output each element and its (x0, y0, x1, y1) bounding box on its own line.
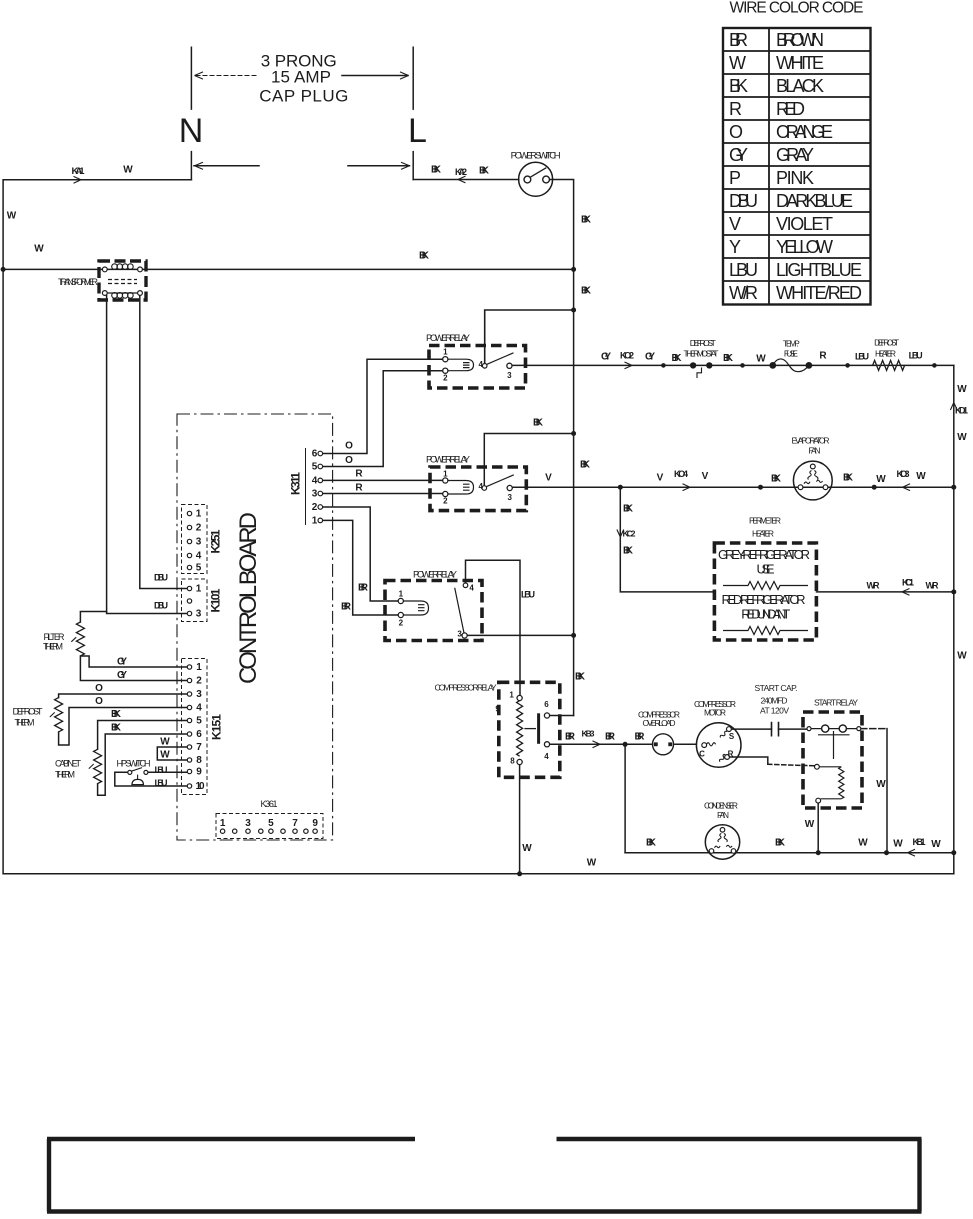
svg-text:3: 3 (507, 371, 512, 380)
svg-text:O: O (95, 683, 103, 694)
svg-text:DEFROST: DEFROST (874, 337, 899, 347)
svg-text:C: C (699, 750, 705, 759)
svg-text:WHITE/RED: WHITE/RED (776, 283, 862, 303)
svg-text:FUSE: FUSE (784, 349, 798, 359)
svg-text:KC1: KC1 (902, 577, 914, 587)
svg-text:BK: BK (575, 671, 586, 682)
svg-text:DEFROST: DEFROST (690, 338, 716, 348)
svg-text:LBU: LBU (155, 778, 168, 788)
svg-text:O: O (345, 441, 353, 452)
svg-text:4: 4 (469, 583, 474, 592)
svg-text:GY: GY (729, 145, 748, 165)
svg-text:KC2: KC2 (623, 528, 636, 538)
svg-text:2: 2 (443, 497, 448, 506)
svg-text:WIRE COLOR CODE: WIRE COLOR CODE (730, 0, 864, 17)
svg-text:4: 4 (478, 482, 483, 491)
svg-text:START RELAY: START RELAY (814, 698, 858, 708)
svg-text:KO4: KO4 (674, 469, 688, 479)
svg-text:BK: BK (533, 417, 544, 428)
svg-text:DBU: DBU (729, 191, 758, 211)
svg-text:W: W (876, 779, 886, 790)
svg-text:ORANGE: ORANGE (776, 122, 833, 142)
svg-text:W: W (893, 838, 903, 849)
svg-text:O: O (729, 122, 743, 142)
svg-text:AT 120V: AT 120V (760, 706, 789, 716)
svg-text:GRAY: GRAY (776, 145, 814, 165)
svg-text:BK: BK (843, 472, 854, 483)
svg-text:BK: BK (623, 545, 634, 556)
svg-text:VIOLET: VIOLET (776, 214, 833, 234)
svg-text:R: R (819, 351, 827, 362)
svg-text:1: 1 (443, 470, 448, 479)
svg-text:USE: USE (757, 562, 775, 577)
svg-text:K361: K361 (261, 799, 278, 809)
svg-text:LBU: LBU (521, 589, 535, 599)
svg-text:V: V (545, 472, 552, 483)
svg-text:W: W (34, 244, 44, 255)
svg-text:240MFD: 240MFD (761, 696, 788, 706)
svg-text:LIGHTBLUE: LIGHTBLUE (776, 260, 862, 280)
svg-text:7: 7 (196, 742, 202, 753)
svg-text:BK: BK (581, 286, 592, 297)
svg-text:4: 4 (312, 475, 318, 486)
svg-text:2: 2 (443, 373, 448, 382)
svg-text:6: 6 (196, 729, 202, 740)
svg-text:POWER SWITCH: POWER SWITCH (511, 150, 561, 161)
svg-text:HEATER: HEATER (752, 528, 774, 538)
svg-text:EVAPORATOR: EVAPORATOR (792, 435, 830, 445)
svg-text:V: V (702, 471, 709, 482)
svg-text:K311: K311 (289, 472, 303, 495)
svg-text:2: 2 (399, 619, 404, 628)
svg-text:K101: K101 (209, 588, 223, 612)
svg-text:BK: BK (431, 165, 442, 176)
svg-text:GY: GY (117, 656, 127, 667)
svg-text:BK: BK (646, 837, 657, 848)
svg-text:K251: K251 (209, 529, 223, 553)
svg-text:W: W (160, 736, 170, 747)
svg-text:3: 3 (196, 537, 202, 548)
svg-text:4: 4 (196, 703, 202, 714)
svg-text:BK: BK (672, 353, 683, 364)
svg-text:LBU: LBU (855, 351, 869, 361)
svg-text:1: 1 (509, 691, 514, 700)
svg-text:TEMP.: TEMP. (783, 339, 800, 349)
svg-text:W/R: W/R (867, 580, 881, 590)
svg-text:BLACK: BLACK (776, 76, 824, 96)
svg-text:2: 2 (196, 523, 202, 534)
svg-text:1: 1 (312, 515, 318, 526)
svg-text:W: W (756, 353, 766, 364)
svg-text:DBU: DBU (154, 572, 168, 582)
svg-text:V: V (657, 472, 664, 483)
svg-text:W: W (123, 165, 133, 176)
svg-text:5: 5 (196, 716, 202, 727)
svg-text:KO2: KO2 (620, 350, 634, 360)
svg-text:1: 1 (443, 348, 448, 357)
svg-text:GY: GY (117, 670, 127, 681)
svg-text:BK: BK (111, 722, 122, 733)
svg-text:FAN: FAN (717, 810, 729, 820)
svg-text:CONTROL BOARD: CONTROL BOARD (235, 512, 262, 684)
svg-text:THERM: THERM (55, 769, 75, 779)
svg-text:BK: BK (419, 251, 430, 262)
svg-text:THERM: THERM (15, 717, 35, 727)
svg-text:2: 2 (196, 676, 202, 687)
svg-text:PERIMETER: PERIMETER (749, 516, 781, 526)
svg-text:4: 4 (196, 551, 202, 562)
svg-text:KO3: KO3 (897, 469, 910, 479)
svg-text:THERM: THERM (43, 641, 63, 651)
svg-text:4: 4 (544, 752, 549, 761)
svg-text:O: O (95, 696, 103, 707)
svg-text:5: 5 (196, 563, 202, 574)
svg-text:R: R (355, 468, 363, 479)
svg-text:R: R (355, 482, 363, 493)
svg-text:KD1: KD1 (955, 405, 968, 415)
svg-text:2: 2 (312, 502, 318, 513)
svg-text:3: 3 (507, 493, 512, 502)
svg-text:DEFROST: DEFROST (13, 706, 43, 717)
svg-text:BR: BR (605, 732, 616, 743)
svg-text:BR: BR (341, 601, 352, 612)
svg-text:W: W (916, 471, 926, 482)
svg-text:Y: Y (729, 237, 741, 257)
svg-text:BR: BR (565, 731, 576, 742)
svg-text:8: 8 (196, 755, 202, 766)
svg-text:START CAP.: START CAP. (755, 683, 798, 693)
svg-text:9: 9 (495, 705, 500, 714)
svg-text:8: 8 (510, 757, 515, 766)
svg-text:15 AMP: 15 AMP (271, 68, 331, 87)
svg-text:BK: BK (479, 166, 490, 177)
svg-text:W: W (876, 474, 886, 485)
svg-text:3: 3 (245, 818, 251, 829)
svg-text:HEATER: HEATER (875, 349, 896, 359)
svg-text:W/R: W/R (926, 580, 940, 590)
svg-text:FAN: FAN (809, 445, 821, 455)
svg-text:N: N (179, 112, 204, 150)
svg-text:BR: BR (635, 732, 646, 743)
svg-text:DBU: DBU (154, 601, 168, 611)
svg-text:5: 5 (268, 818, 274, 829)
svg-text:3: 3 (196, 689, 202, 700)
svg-text:BK: BK (581, 215, 592, 226)
svg-text:CONDENSER: CONDENSER (704, 801, 738, 811)
svg-text:W: W (957, 384, 967, 395)
svg-text:BK: BK (723, 353, 734, 364)
svg-text:R: R (728, 750, 734, 759)
svg-text:V: V (729, 214, 741, 234)
svg-text:1: 1 (196, 509, 202, 520)
svg-text:MOTOR: MOTOR (704, 708, 726, 718)
svg-text:BK: BK (775, 837, 786, 848)
svg-text:S: S (729, 732, 735, 741)
svg-text:W: W (957, 650, 967, 661)
svg-text:W: W (957, 432, 967, 443)
svg-text:CABINET: CABINET (55, 758, 82, 768)
svg-text:DARKBLUE: DARKBLUE (776, 191, 853, 211)
svg-text:BROWN: BROWN (776, 30, 824, 50)
svg-text:10: 10 (196, 781, 205, 792)
svg-text:KA1: KA1 (72, 166, 86, 177)
svg-text:P: P (729, 168, 741, 188)
svg-text:GY: GY (645, 351, 655, 362)
svg-text:PINK: PINK (776, 168, 814, 188)
svg-text:W: W (587, 857, 597, 868)
svg-text:CAP PLUG: CAP PLUG (259, 87, 348, 106)
svg-text:1: 1 (196, 662, 202, 673)
svg-text:BK: BK (771, 473, 782, 484)
svg-text:OVERLOAD: OVERLOAD (643, 718, 676, 728)
svg-text:W: W (858, 837, 868, 848)
svg-text:W: W (160, 749, 170, 760)
svg-text:R: R (729, 99, 742, 119)
svg-text:W: W (522, 843, 532, 854)
svg-text:RED-REFRIGERATOR: RED-REFRIGERATOR (722, 592, 806, 607)
svg-text:LBU: LBU (155, 765, 168, 775)
svg-text:W: W (729, 53, 746, 73)
svg-text:L: L (408, 112, 427, 150)
svg-text:HP SWITCH: HP SWITCH (117, 758, 151, 768)
svg-text:POWER RELAY: POWER RELAY (426, 333, 471, 344)
svg-text:COMPRESSOR RELAY: COMPRESSOR RELAY (435, 682, 497, 692)
svg-text:9: 9 (312, 818, 318, 829)
svg-text:WHITE: WHITE (776, 53, 824, 73)
svg-text:KB3: KB3 (582, 729, 595, 739)
svg-text:GREY-REFRIGERATOR: GREY-REFRIGERATOR (718, 547, 810, 562)
svg-text:W: W (805, 819, 815, 830)
svg-text:RED: RED (776, 99, 805, 119)
svg-text:W: W (7, 211, 17, 222)
svg-text:LBU: LBU (909, 350, 923, 360)
svg-text:6: 6 (544, 700, 549, 709)
svg-text:BK: BK (623, 503, 634, 514)
svg-text:1: 1 (399, 590, 404, 599)
svg-text:7: 7 (292, 818, 298, 829)
svg-text:W/R: W/R (729, 283, 758, 303)
svg-text:GY: GY (601, 351, 611, 362)
svg-text:KA2: KA2 (455, 167, 467, 177)
svg-text:THERMOSTAT: THERMOSTAT (684, 349, 719, 359)
svg-text:BK: BK (729, 76, 748, 96)
svg-text:3: 3 (196, 609, 202, 620)
svg-text:BK: BK (111, 709, 122, 720)
svg-text:LBU: LBU (729, 260, 758, 280)
svg-text:POWER RELAY: POWER RELAY (413, 570, 458, 581)
svg-text:O: O (345, 455, 353, 466)
svg-text:K151: K151 (210, 714, 224, 740)
svg-text:9: 9 (196, 767, 202, 778)
svg-text:BR: BR (358, 582, 369, 593)
svg-text:5: 5 (312, 462, 318, 473)
svg-text:BK: BK (580, 459, 591, 470)
svg-text:W: W (931, 839, 941, 850)
svg-text:1: 1 (196, 584, 202, 595)
svg-text:REDUNDANT: REDUNDANT (741, 607, 790, 622)
svg-text:6: 6 (312, 449, 318, 460)
svg-text:KB1: KB1 (913, 837, 926, 847)
svg-text:YELLOW: YELLOW (776, 237, 833, 257)
svg-text:3: 3 (457, 629, 462, 638)
svg-text:TRANSFORMER: TRANSFORMER (58, 277, 99, 287)
svg-text:BR: BR (729, 30, 748, 50)
svg-text:POWER RELAY: POWER RELAY (426, 455, 471, 466)
svg-text:4: 4 (478, 360, 483, 369)
svg-text:3: 3 (312, 489, 318, 500)
svg-text:1: 1 (220, 818, 226, 829)
